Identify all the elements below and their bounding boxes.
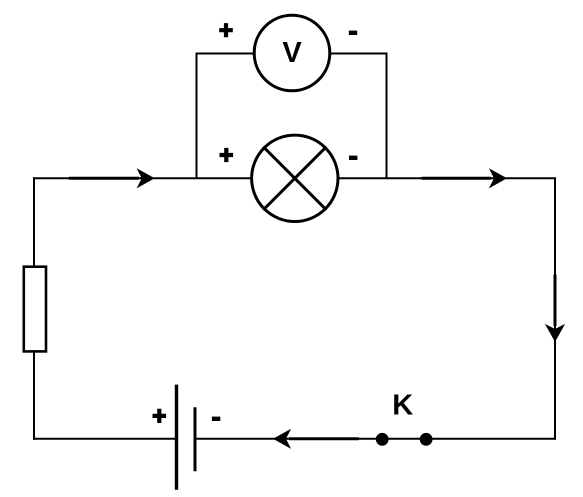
- wire: top main horizontal, left of lamp: [33, 177, 252, 179]
- wire: bottom horizontal, left segment (battery positive plate to bottom-left corner): [33, 438, 177, 440]
- lamp polarity label +: [220, 148, 234, 162]
- voltmeter polarity label +: [219, 23, 233, 37]
- wire: left vertical, top segment (top-left corner down to resistor): [33, 177, 35, 266]
- current arrow: bottom wire, pointing left: [273, 429, 359, 449]
- wire: voltmeter branch, right vertical riser: [386, 54, 388, 179]
- battery polarity label -: [212, 417, 220, 421]
- current arrow: top-right wire, pointing right: [422, 168, 507, 188]
- wire: left vertical, bottom segment (resistor down to bottom-left corner): [33, 352, 35, 440]
- battery B1: negative (short) plate: [194, 407, 197, 471]
- wire: bottom horizontal, right segment (right corner to battery negative plate): [195, 438, 556, 440]
- svg-text:K: K: [392, 390, 413, 422]
- lamp L1 (circle with X): [252, 135, 338, 221]
- wire: voltmeter branch, top horizontal left of meter: [196, 53, 256, 55]
- wire: voltmeter branch, top horizontal right of meter: [329, 53, 388, 55]
- voltmeter polarity label -: [349, 31, 357, 35]
- voltmeter U1 (circle): [254, 15, 330, 91]
- resistor R1 (rectangle): [24, 267, 46, 352]
- switch K: right contact dot: [420, 433, 433, 446]
- battery B1: positive (long) plate: [175, 385, 178, 490]
- wire: voltmeter branch, left vertical riser: [196, 54, 198, 179]
- current arrow: top-left wire, pointing right: [69, 168, 155, 188]
- battery polarity label +: [153, 409, 167, 423]
- wire: right vertical: [554, 177, 556, 440]
- switch K: left contact dot: [376, 433, 389, 446]
- svg-text:V: V: [282, 37, 302, 69]
- lamp polarity label -: [349, 156, 357, 160]
- wire: top main horizontal, right of lamp: [338, 177, 556, 179]
- current arrow: right vertical wire, pointing down: [545, 275, 565, 343]
